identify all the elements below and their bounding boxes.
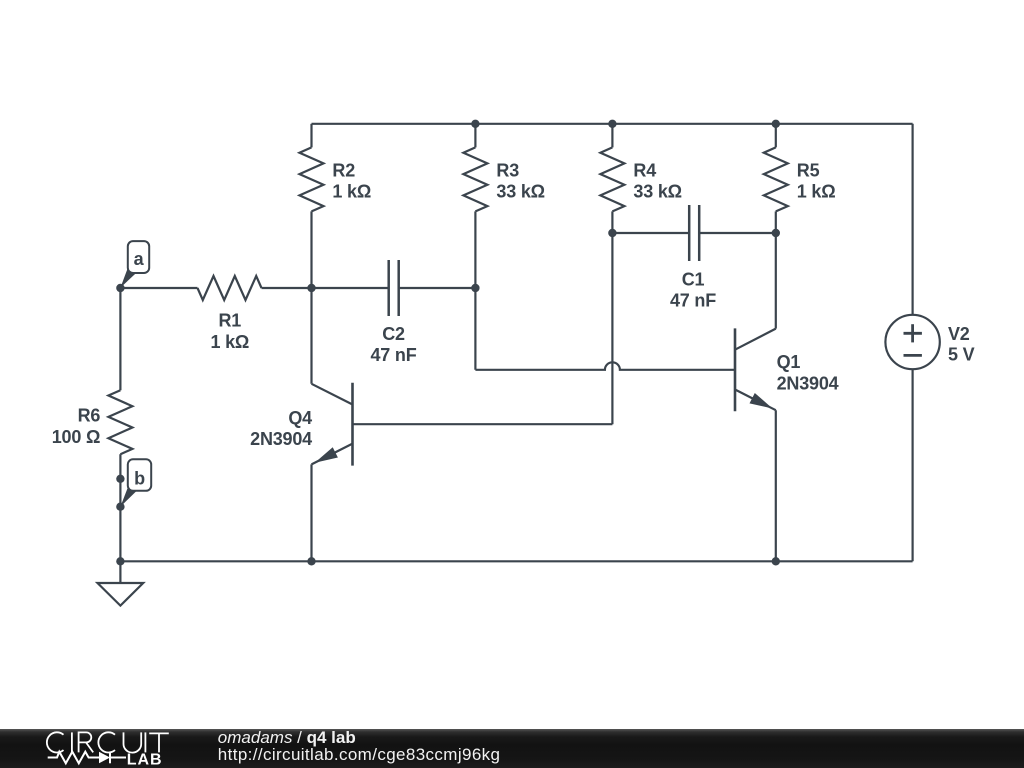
svg-text:2N3904: 2N3904 <box>250 429 312 449</box>
logo resistor-diode glyph <box>48 752 126 764</box>
svg-text:1 kΩ: 1 kΩ <box>210 332 249 352</box>
junction top rail / R4 <box>608 120 616 128</box>
svg-text:5 V: 5 V <box>948 344 975 364</box>
junction C1 / R5 <box>772 229 780 237</box>
wire Q4 base <box>353 423 613 425</box>
svg-text:R1: R1 <box>218 311 241 331</box>
voltage source V2 <box>885 315 939 369</box>
wire C1 right lead <box>699 232 776 234</box>
wire top supply rail <box>312 123 913 125</box>
logo CIRCUIT wordmark <box>47 732 169 752</box>
svg-text:a: a <box>134 249 145 269</box>
junction ground / bottom rail <box>116 557 124 565</box>
junction R6 bottom <box>116 475 124 483</box>
transistor Q4 <box>312 383 353 466</box>
wire R5 column to Q1 collector <box>775 233 777 329</box>
junction top rail / R5 <box>772 120 780 128</box>
wire C2 right lead <box>399 287 476 289</box>
footer bar <box>0 729 1024 768</box>
svg-text:47 nF: 47 nF <box>370 345 416 365</box>
label R4 name/value <box>633 160 681 201</box>
svg-text:C2: C2 <box>382 324 405 344</box>
wire node a to R1 <box>120 287 197 289</box>
svg-text:C1: C1 <box>682 269 705 289</box>
label R1 name/value <box>210 311 249 352</box>
junction top rail / R3 <box>471 120 479 128</box>
wire node b to bottom rail <box>119 507 121 562</box>
junction Q1 emitter / bottom rail <box>772 557 780 565</box>
capacitor C2 <box>389 260 399 316</box>
resistor R3 <box>463 147 487 211</box>
wire R4 column down to Q4 base row <box>611 233 613 424</box>
wire ground stub <box>119 561 121 583</box>
wire Q1 base with hop over R4 column <box>475 362 735 369</box>
ground <box>98 583 144 606</box>
svg-text:47 nF: 47 nF <box>670 291 716 311</box>
wire R5 top lead <box>775 124 777 148</box>
wire R3 bottom lead <box>474 211 476 288</box>
wire R4 bottom lead <box>611 211 613 233</box>
wire R4 top lead <box>611 124 613 148</box>
wire R2 top lead <box>310 124 312 148</box>
junction C2 / R3 <box>471 284 479 292</box>
svg-text:33 kΩ: 33 kΩ <box>496 182 544 202</box>
junction Q4 emitter / bottom rail <box>307 557 315 565</box>
wire C2 node down R3 column <box>474 288 476 370</box>
transistor Q1 <box>735 328 776 411</box>
svg-text:1 kΩ: 1 kΩ <box>797 182 836 202</box>
svg-text:33 kΩ: 33 kΩ <box>633 182 681 202</box>
resistor R6 <box>108 390 132 454</box>
footer credit text <box>218 730 501 764</box>
label R5 name/value <box>797 160 836 201</box>
wire node b segment <box>119 479 121 507</box>
node b junction <box>116 503 124 511</box>
svg-text:R2: R2 <box>332 160 355 180</box>
wire R5 bottom lead <box>775 211 777 233</box>
wire R3 top lead <box>474 124 476 148</box>
wire Q4 collector up to node <box>310 288 312 384</box>
wire C2 left lead <box>312 287 389 289</box>
svg-text:R6: R6 <box>78 406 101 426</box>
resistor R1 <box>198 276 262 300</box>
wire V2 bottom lead <box>911 369 913 561</box>
svg-text:LAB: LAB <box>127 751 163 768</box>
wire R6 bottom to node b <box>119 454 121 479</box>
wire C1 left lead <box>612 232 689 234</box>
svg-text:2N3904: 2N3904 <box>777 373 839 393</box>
svg-text:Q4: Q4 <box>288 408 312 428</box>
label R2 name/value <box>332 160 371 201</box>
wire R1 to node at R2 bottom <box>262 287 312 289</box>
wire R2 bottom lead <box>310 211 312 288</box>
svg-text:R3: R3 <box>496 160 519 180</box>
wire Q1 emitter down to bottom rail <box>775 410 777 561</box>
label R6 name/value <box>52 406 101 447</box>
label Q1 name/value <box>777 352 839 393</box>
resistor R2 <box>300 147 324 211</box>
label Q4 name/value <box>250 408 312 449</box>
junction R4 / C1 <box>608 229 616 237</box>
label C1 name/value <box>670 269 716 310</box>
label R3 name/value <box>496 160 544 201</box>
node a flag <box>120 241 149 288</box>
resistor R4 <box>600 147 624 211</box>
svg-text:1 kΩ: 1 kΩ <box>332 182 371 202</box>
wire Q4 emitter down to bottom rail <box>310 464 312 561</box>
svg-text:R4: R4 <box>633 160 656 180</box>
node a junction <box>116 284 124 292</box>
svg-text:Q1: Q1 <box>777 352 801 372</box>
svg-text:V2: V2 <box>948 324 970 344</box>
wire node a down to R6 <box>119 288 121 390</box>
label C2 name/value <box>370 324 416 365</box>
label V2 name/value <box>948 324 975 364</box>
wire bottom ground rail <box>120 560 912 562</box>
svg-text:R5: R5 <box>797 160 820 180</box>
capacitor C1 <box>689 205 699 261</box>
node b flag <box>120 459 151 506</box>
wire V2 top lead <box>911 124 913 315</box>
junction R1/R2/C2/Q4 collector <box>307 284 315 292</box>
svg-text:b: b <box>134 469 145 489</box>
svg-text:100 Ω: 100 Ω <box>52 427 100 447</box>
resistor R5 <box>764 147 788 211</box>
